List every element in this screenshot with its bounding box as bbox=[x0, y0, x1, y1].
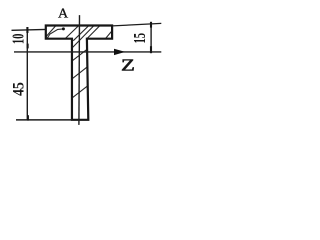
svg-text:45: 45 bbox=[11, 82, 28, 96]
dim 15: tick top bbox=[150, 22, 152, 28]
point A dot bbox=[62, 27, 65, 30]
svg-text:Z: Z bbox=[121, 56, 135, 75]
T-section outline bbox=[46, 26, 112, 120]
svg-text:10: 10 bbox=[9, 34, 28, 45]
dim 45: bottom extension line bbox=[16, 119, 72, 121]
dim 10: top extension line bbox=[12, 28, 46, 31]
dim 15: top extension line bbox=[113, 23, 162, 26]
dim 15: tick bottom bbox=[150, 46, 152, 53]
dim 45: tick bottom bbox=[27, 115, 29, 120]
svg-text:A: A bbox=[58, 6, 69, 21]
Z axis arrowhead bbox=[114, 49, 125, 55]
hatch lines (section hatching of T profile) bbox=[45, 25, 113, 99]
dims 10/45: shared dimension line bbox=[26, 28, 28, 120]
dim 10: tick top bbox=[26, 27, 28, 33]
dim 10: tick bottom bbox=[27, 44, 29, 49]
dim 15: dimension line bbox=[150, 24, 152, 52]
svg-text:15: 15 bbox=[130, 33, 149, 44]
vertical centerline (y axis) bbox=[78, 15, 81, 125]
Z axis line bbox=[14, 51, 161, 53]
